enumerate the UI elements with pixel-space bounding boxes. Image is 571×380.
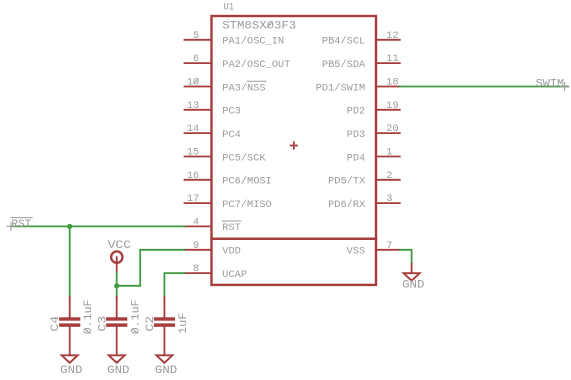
label RST — [7, 218, 32, 231]
svg-text:PD1/SWIM: PD1/SWIM — [316, 82, 365, 94]
wire net SWIM from pin 18 — [400, 86, 568, 88]
IC U1 origin cross — [291, 142, 298, 149]
svg-text:PC5/SCK: PC5/SCK — [222, 152, 266, 164]
svg-text:VDD: VDD — [222, 246, 241, 258]
svg-text:2: 2 — [386, 170, 392, 182]
svg-text:PD3: PD3 — [347, 129, 366, 141]
wire VSS net from pin 7 to ground — [400, 250, 412, 264]
svg-text:PB5/SDA: PB5/SDA — [322, 59, 366, 71]
capacitor C2 1uF — [145, 297, 190, 356]
label SWIM — [536, 78, 569, 90]
svg-text:VSS: VSS — [347, 246, 366, 258]
svg-text:GND: GND — [402, 280, 424, 292]
ground symbol at VSS — [402, 264, 424, 292]
capacitor C4 0.1uF — [50, 297, 95, 356]
svg-text:5: 5 — [193, 30, 199, 42]
svg-text:PC3: PC3 — [222, 106, 241, 118]
svg-text:PC7/MISO: PC7/MISO — [222, 199, 271, 211]
svg-text:10: 10 — [187, 77, 199, 89]
svg-text:6: 6 — [193, 53, 199, 65]
svg-text:PA2/OSC_OUT: PA2/OSC_OUT — [222, 59, 290, 71]
pin 6 PA2/OSC_OUT — [185, 53, 291, 71]
svg-text:PD5/TX: PD5/TX — [328, 176, 365, 188]
svg-text:4: 4 — [193, 216, 199, 228]
pin 1 PD4 — [347, 147, 400, 165]
supply symbol VCC — [108, 240, 132, 273]
svg-text:9: 9 — [193, 240, 199, 252]
svg-text:C2: C2 — [145, 316, 157, 332]
pin 16 PC6/MOSI — [185, 170, 272, 188]
pin 15 PC5/SCK — [185, 147, 267, 165]
svg-text:GND: GND — [107, 365, 129, 377]
svg-text:GND: GND — [60, 365, 82, 377]
pin 4 RST — [185, 216, 241, 234]
svg-text:3: 3 — [386, 193, 392, 205]
svg-text:RST: RST — [222, 222, 241, 234]
pin 11 PB5/SDA — [322, 53, 400, 71]
svg-text:GND: GND — [155, 365, 177, 377]
wire UCAP net from pin 8 to C2 — [164, 273, 184, 297]
svg-text:12: 12 — [386, 30, 398, 42]
svg-text:7: 7 — [386, 240, 392, 252]
IC U1 body upper section — [212, 16, 377, 239]
svg-text:13: 13 — [187, 100, 199, 112]
IC U1 body power section — [212, 239, 377, 285]
svg-text:1uF: 1uF — [178, 312, 190, 334]
svg-text:SWIM: SWIM — [536, 78, 565, 90]
svg-text:PB4/SCL: PB4/SCL — [322, 36, 365, 48]
svg-text:11: 11 — [386, 53, 398, 65]
svg-text:RST: RST — [11, 219, 31, 231]
pin 17 PC7/MISO — [185, 193, 272, 211]
ground symbol below C3 — [107, 355, 129, 377]
pin 19 PD2 — [347, 100, 400, 118]
ground symbol below C4 — [60, 355, 82, 377]
capacitor C3 0.1uF — [98, 297, 143, 356]
svg-text:19: 19 — [386, 100, 398, 112]
wire RST net down to C4 — [69, 226, 71, 296]
pin 13 PC3 — [185, 100, 241, 118]
svg-text:18: 18 — [386, 77, 398, 89]
pin 10 PA3/NSS — [185, 77, 266, 95]
wire VCC net to pin 9 VDD — [117, 250, 185, 286]
svg-text:1: 1 — [386, 147, 392, 159]
svg-text:UCAP: UCAP — [222, 269, 247, 281]
svg-text:16: 16 — [187, 170, 199, 182]
svg-text:14: 14 — [187, 123, 199, 135]
pin 12 PB4/SCL — [322, 30, 400, 48]
svg-text:PD6/RX: PD6/RX — [328, 199, 365, 211]
svg-text:PD4: PD4 — [347, 152, 366, 164]
svg-text:STM8SX03F3: STM8SX03F3 — [222, 21, 296, 33]
svg-text:U1: U1 — [223, 2, 234, 14]
pin 7 VSS — [347, 240, 400, 258]
junction node on RST net — [67, 224, 72, 229]
svg-text:C4: C4 — [50, 316, 62, 332]
pin 8 UCAP — [185, 263, 248, 281]
ground symbol below C2 — [155, 355, 177, 377]
svg-text:C3: C3 — [98, 316, 110, 332]
pin 14 PC4 — [185, 123, 241, 141]
junction node on VCC net — [114, 283, 119, 288]
pin 2 PD5/TX — [328, 170, 400, 188]
svg-text:15: 15 — [187, 147, 199, 159]
svg-text:PA1/OSC_IN: PA1/OSC_IN — [222, 36, 284, 48]
pin 18 PD1/SWIM — [316, 77, 400, 95]
pin 5 PA1/OSC_IN — [185, 30, 285, 48]
svg-text:PD2: PD2 — [347, 106, 366, 118]
wire VCC stem to junction — [116, 273, 118, 297]
pin 20 PD3 — [347, 123, 400, 141]
svg-text:PC6/MOSI: PC6/MOSI — [222, 176, 271, 188]
wire net RST from pin 4 — [11, 225, 185, 227]
svg-text:8: 8 — [193, 263, 199, 275]
svg-text:VCC: VCC — [108, 240, 132, 252]
svg-text:20: 20 — [386, 123, 398, 135]
svg-text:PC4: PC4 — [222, 129, 241, 141]
pin 9 VDD — [185, 240, 241, 258]
svg-text:PA3/NSS: PA3/NSS — [222, 82, 265, 94]
pin 3 PD6/RX — [328, 193, 400, 211]
svg-text:17: 17 — [187, 193, 199, 205]
IC U1 STM8SX03F3 — [212, 2, 377, 285]
